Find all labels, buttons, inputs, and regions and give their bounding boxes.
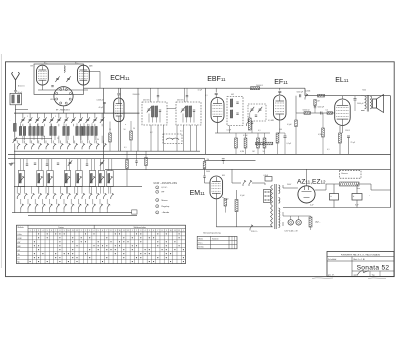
switch arm L16 (99, 176, 104, 183)
IFT1 primary coil (151, 106, 154, 117)
svg-text:0,5 MΩ: 0,5 MΩ (268, 120, 274, 122)
trimmer capacitor CT6 (57, 117, 61, 123)
switch contact S2-8 (68, 193, 71, 199)
wire vertical x120 (120, 88, 122, 151)
fuse box (265, 177, 272, 182)
svg-text:Tasten: Tasten (58, 226, 64, 229)
wire (27, 199, 29, 204)
wire (282, 212, 284, 216)
capacitor C20 (34, 163, 36, 164)
switch contact S3-11 (93, 204, 96, 210)
tube EF11 envelope (274, 95, 287, 120)
scan left edge artifact (0, 54, 2, 268)
wire (16, 186, 18, 193)
svg-text:Tag: Tag (372, 275, 375, 277)
wire (22, 124, 24, 127)
wire mains input (216, 226, 272, 228)
wire (130, 121, 132, 131)
wire (326, 183, 340, 185)
wire (63, 199, 65, 204)
wire (99, 187, 101, 194)
wire (298, 216, 300, 220)
wire (277, 143, 279, 154)
wire (222, 197, 225, 199)
wire (36, 136, 38, 144)
coil unit L10 frame (18, 171, 24, 187)
wire (38, 159, 40, 171)
svg-text:0,008 µF: 0,008 µF (97, 100, 105, 102)
wire rectifier heater (306, 169, 308, 186)
capacitor EM11 grid (203, 176, 205, 177)
svg-text:20000 Ω: 20000 Ω (256, 85, 263, 87)
trimmer UKW C1 (55, 76, 59, 82)
coil L3a (37, 126, 40, 135)
coil unit L16 frame (98, 171, 104, 187)
wire (33, 136, 35, 141)
wire can internal 1 (182, 114, 184, 123)
wire IF lead (163, 125, 165, 151)
wire (101, 136, 103, 144)
wire (74, 141, 76, 144)
wire (361, 110, 365, 112)
wire (87, 136, 89, 144)
wire (86, 159, 88, 164)
wire (108, 187, 110, 194)
voltage table (197, 236, 237, 248)
switch contact S2-12 (96, 193, 99, 199)
wire (34, 210, 36, 213)
resistor grid leak EL11 (314, 100, 316, 106)
switch contact S3-10 (86, 204, 89, 210)
switch contact S1-13 (104, 143, 107, 149)
wire (93, 159, 95, 171)
svg-text:Masse: Masse (162, 200, 169, 202)
wire vertical junction x205 (205, 88, 207, 154)
wire (49, 199, 51, 204)
selector pin (265, 199, 267, 201)
wire (284, 133, 286, 136)
wire (295, 113, 297, 120)
pencil note below frame right (368, 277, 386, 280)
svg-text:(0,3M): (0,3M) (305, 91, 311, 93)
wire (70, 210, 72, 213)
selector pin (268, 195, 270, 197)
wire EF11 grid (279, 88, 281, 90)
wire (108, 159, 110, 171)
wire (264, 133, 266, 138)
socket pin (69, 93, 71, 95)
wire (257, 133, 259, 138)
wire (360, 96, 362, 111)
svg-text:5000 pF: 5000 pF (297, 91, 304, 93)
coil L13 winding (65, 173, 67, 183)
legend item 2 circle (156, 190, 159, 193)
resistor 50000 (304, 112, 311, 115)
pencil note below frame left (312, 277, 333, 280)
wire (106, 210, 108, 213)
resistor cathode EL11 (339, 133, 342, 143)
IFT1 secondary coil (155, 106, 158, 117)
switch contact S3-4 (42, 204, 45, 210)
wire IFT1 feed (150, 88, 152, 102)
wire (72, 136, 74, 144)
svg-text:··: ·· (9, 119, 11, 122)
switch arm L17 (108, 176, 113, 183)
wire (237, 182, 242, 184)
wire (65, 159, 67, 171)
coil L11 winding (38, 173, 40, 183)
IFT3 capacitor 2 (236, 113, 238, 114)
wire (229, 126, 231, 134)
switch contact S1-2 (24, 143, 27, 149)
wire transformer feed (231, 169, 233, 183)
switch arm L10 (19, 176, 24, 183)
wire (36, 113, 38, 118)
svg-text:6,3 V~: 6,3 V~ (162, 187, 169, 189)
wire (80, 136, 82, 144)
wire (29, 124, 31, 127)
wire IF lead (176, 125, 178, 151)
svg-text:EM11: EM11 (190, 190, 206, 197)
wire (354, 100, 356, 111)
wire (186, 97, 188, 102)
wire (74, 186, 76, 193)
wire (80, 124, 82, 127)
wire (94, 113, 96, 118)
wire (145, 166, 147, 171)
wire (136, 162, 138, 166)
svg-text:50000 Ω: 50000 Ω (303, 110, 310, 112)
wire (235, 133, 237, 138)
antenna input transformer (10, 93, 22, 105)
socket pin (60, 102, 62, 104)
coil L12 winding (48, 173, 50, 183)
wire ECH11 cathode lead (118, 122, 120, 152)
wire (52, 186, 54, 193)
electrolytic capacitor 2 (352, 194, 362, 201)
wire (282, 185, 284, 188)
electrolytic capacitor 1 (330, 194, 339, 201)
wire (322, 113, 324, 128)
output transformer secondary (370, 96, 372, 109)
antenna (12, 72, 20, 90)
wire (224, 206, 226, 213)
svg-text:2: 2 (55, 116, 56, 118)
coil L14 winding (77, 173, 79, 183)
coil L10 winding (19, 173, 21, 183)
capacitor C22 (26, 164, 28, 165)
wire (339, 126, 341, 133)
selector pin (268, 199, 270, 201)
coil L6b (80, 126, 83, 135)
wire (99, 72, 101, 89)
wire (20, 123, 22, 126)
wire (333, 200, 335, 208)
svg-text:0,8 A: 0,8 A (264, 174, 269, 177)
coil unit L13 frame (64, 171, 70, 187)
wire (130, 140, 132, 151)
coil unit L11 frame (37, 171, 43, 187)
switch contact S1-5 (46, 143, 49, 149)
wire can internal 2 (159, 112, 161, 123)
wire can internal 2 (193, 112, 195, 123)
wire (85, 210, 87, 213)
trimmer capacitor CT11 (93, 117, 97, 123)
IFT1 capacitor (159, 110, 161, 111)
IFT2 secondary coil (189, 106, 192, 117)
mains transformer primary winding (271, 185, 273, 227)
wire (304, 88, 306, 96)
wire (31, 141, 33, 144)
wire (56, 199, 58, 204)
selector pin (265, 191, 267, 193)
wire IFT1-IFT2 link (167, 108, 176, 110)
wire (102, 159, 104, 171)
potentiometer wiper (247, 120, 250, 126)
wire (251, 123, 253, 133)
svg-text:Antenne: Antenne (18, 85, 25, 88)
wire (65, 136, 67, 144)
wire (52, 141, 54, 144)
capacitor C24 (86, 164, 88, 165)
coil unit L17 frame (107, 171, 113, 187)
svg-text:150 Ω: 150 Ω (345, 130, 350, 132)
transformer core line 2 (275, 184, 277, 229)
wire can internal 1 (148, 114, 150, 123)
selector pin (268, 191, 270, 193)
wire (44, 124, 46, 127)
resistor EM11 grid leak (224, 199, 227, 206)
svg-text:B o.s.: B o.s. (199, 243, 204, 245)
switch contact S2-13 (104, 193, 107, 199)
wire (104, 104, 106, 114)
svg-text:FUNKWERK HALLE K.-G., HALLE (S: FUNKWERK HALLE K.-G., HALLE (SAALE) (341, 253, 381, 256)
wire (251, 121, 253, 122)
wire (56, 210, 58, 213)
svg-text:KW: KW (18, 242, 21, 244)
wire (20, 199, 22, 204)
wire (48, 159, 50, 171)
wire can internal 3 (186, 117, 188, 123)
wire (101, 124, 103, 127)
capacitor C23 (46, 164, 48, 165)
wire socket to bus (63, 106, 65, 113)
svg-text:2x: 2x (43, 136, 45, 138)
capacitor det (255, 115, 257, 116)
switch contact S1-11 (89, 143, 92, 149)
legend item 3 circle (156, 199, 159, 202)
svg-text:0,2: 0,2 (326, 110, 329, 112)
switch contact S3-12 (100, 204, 103, 210)
wire (37, 123, 39, 126)
wire (252, 182, 265, 184)
oscillator padder dashed box (163, 134, 182, 144)
switch contact S2-5 (46, 193, 49, 199)
switch arm L14 (77, 176, 82, 183)
svg-text:ECH11: ECH11 (110, 75, 130, 82)
wire (310, 216, 312, 217)
svg-text:50: 50 (133, 128, 135, 130)
wire (356, 200, 358, 208)
wire IF lead (190, 125, 192, 151)
coil L16 winding (99, 173, 101, 183)
wire can internal 4 (155, 117, 157, 123)
svg-text:462 kHz: 462 kHz (143, 100, 150, 102)
wire (38, 141, 40, 144)
wire (22, 113, 24, 118)
wire (186, 88, 188, 95)
wire (63, 87, 65, 90)
secondary winding HT1 (279, 185, 280, 193)
UKW tuner unit enclosure (34, 64, 84, 94)
capacitor IFT2 top (186, 96, 188, 97)
capacitor antenna series (14, 91, 16, 92)
capacitor C21 (57, 163, 59, 164)
wire EBF11 grid (215, 88, 217, 92)
switch contact S1-9 (75, 143, 78, 149)
switch contact S2-14 (111, 193, 114, 199)
grid cap EF11 (278, 91, 281, 92)
wire (333, 184, 335, 194)
wire (310, 227, 312, 230)
svg-text:0,1: 0,1 (205, 95, 208, 97)
svg-text:462 kHz: 462 kHz (177, 100, 184, 102)
svg-text:4 MΩ: 4 MΩ (224, 199, 229, 201)
wire (94, 124, 96, 127)
switch contact S3-1 (21, 204, 24, 210)
wire EM11 grid feed (204, 159, 206, 162)
wire (322, 137, 324, 154)
wire antenna lead 3 (14, 144, 16, 213)
wire AVC bus left (8, 158, 205, 160)
wire (314, 106, 316, 107)
tube EL11 envelope (335, 99, 351, 126)
switch arm L11 (38, 176, 43, 183)
resistor smoothing choke (340, 182, 360, 186)
wire (361, 95, 365, 97)
coil antenna loading (13, 123, 16, 131)
mains switch contact 2 (249, 180, 252, 186)
wire (15, 92, 17, 94)
resistor grid stopper (318, 94, 325, 97)
svg-text:UKW: UKW (50, 99, 54, 101)
wire vertical x138 (137, 88, 139, 151)
wire (88, 186, 90, 193)
coil unit L12 frame (47, 171, 53, 187)
wire (41, 136, 43, 141)
wire (29, 136, 31, 144)
svg-text:0,3M: 0,3M (240, 151, 244, 153)
capacitor cathode bypass EL11 (347, 136, 350, 138)
wire (290, 216, 292, 220)
switch contact S2-11 (89, 193, 92, 199)
wire (41, 210, 43, 213)
coil antenna secondary (17, 95, 19, 103)
wire UKW output 1 (83, 71, 100, 73)
wire (245, 148, 247, 154)
resistor voltage dropper (235, 200, 238, 212)
wire (95, 186, 97, 193)
capacitor tone 2 (314, 107, 316, 108)
svg-text:Sonata 52: Sonata 52 (357, 264, 390, 271)
ratio detector trimmer box (248, 104, 266, 121)
wire (41, 85, 43, 90)
switch contact S3-3 (35, 204, 38, 210)
IFT3 coil b (230, 110, 233, 118)
wire B+ right rail (390, 96, 392, 208)
wire IF lead (183, 125, 185, 151)
resistor EM11 series (203, 162, 206, 169)
wire (145, 151, 147, 157)
coil L8a (91, 126, 94, 135)
component value annotations (27, 63, 370, 207)
wire HT to rectifier (283, 187, 298, 189)
svg-text:EC…: EC… (75, 63, 79, 65)
band switch table (17, 225, 186, 263)
wire IFT2 feed (184, 88, 186, 102)
coil L4a (50, 126, 53, 135)
ganged capacitor rotor 2 (172, 138, 179, 140)
wire EL11 cathode lead (342, 126, 344, 134)
wire IF lead (196, 125, 198, 151)
wire (72, 113, 74, 118)
coil unit L15 frame (89, 171, 95, 187)
wire (67, 186, 69, 193)
wire HT centre tap bus (283, 207, 391, 209)
wire chassis bus (8, 153, 391, 155)
capacitor osc 1 (103, 102, 105, 103)
wire (68, 159, 70, 171)
coil L7a (83, 126, 86, 135)
wire (235, 148, 237, 154)
wire lamp feed (283, 215, 311, 217)
svg-text:Regelsp.: Regelsp. (162, 206, 171, 208)
IFT2 primary coil (185, 106, 188, 117)
coil L1a (19, 126, 22, 135)
svg-text:Wellenb.: Wellenb. (18, 227, 25, 229)
coil L7b (87, 126, 90, 135)
svg-text:EL11: EL11 (335, 77, 349, 84)
wire (20, 210, 22, 213)
svg-text:3: 3 (157, 200, 158, 202)
wire EBF11 lead (217, 123, 219, 134)
svg-text:25: 25 (109, 129, 111, 131)
wire (136, 151, 138, 161)
wire (81, 186, 83, 193)
wire (80, 113, 82, 118)
switch contact S3-7 (64, 204, 67, 210)
legend item 4 circle (156, 205, 159, 208)
switch contact S1-6 (53, 143, 56, 149)
wire (359, 183, 371, 185)
svg-text:0,2: 0,2 (150, 132, 153, 134)
coil antenna primary (12, 95, 14, 103)
wire (81, 141, 83, 144)
wire (65, 113, 67, 118)
resistor R30 (126, 160, 129, 169)
signature squiggle (357, 271, 369, 276)
wire (80, 136, 82, 141)
coil L1b (23, 126, 26, 135)
wire (245, 133, 247, 138)
socket pin (65, 89, 67, 91)
UKW tube V1 (37, 65, 49, 85)
svg-text:Schaltbild: Schaltbild (328, 258, 336, 261)
wire switch bus B (14, 150, 200, 152)
wire (94, 136, 96, 144)
wire (80, 159, 82, 171)
svg-text:UKW - ANSCHLUSS: UKW - ANSCHLUSS (154, 182, 178, 185)
